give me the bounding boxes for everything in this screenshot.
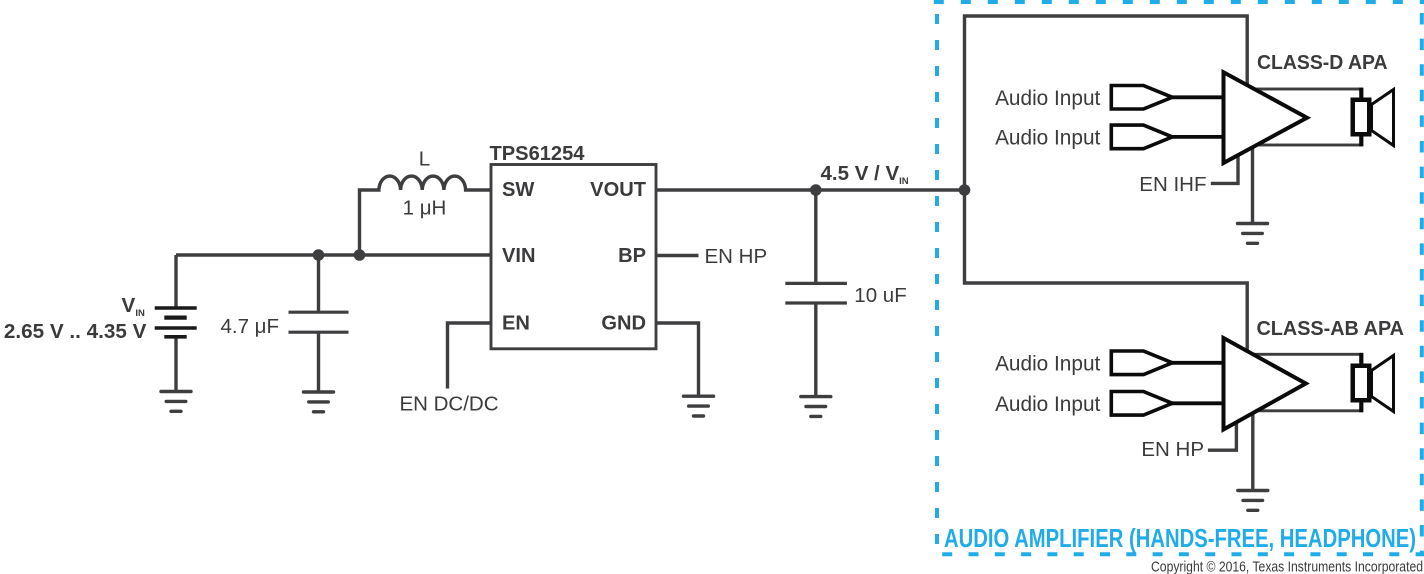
svg-text:Audio Input: Audio Input <box>995 393 1100 416</box>
svg-text:10 uF: 10 uF <box>854 284 906 307</box>
svg-text:SW: SW <box>502 179 534 201</box>
svg-text:EN HP: EN HP <box>705 245 768 268</box>
svg-text:4.7 μF: 4.7 μF <box>220 315 279 338</box>
svg-text:EN IHF: EN IHF <box>1139 173 1206 196</box>
svg-text:1 μH: 1 μH <box>403 196 447 219</box>
svg-text:CLASS-D APA: CLASS-D APA <box>1257 52 1388 74</box>
svg-text:Audio Input: Audio Input <box>995 126 1100 149</box>
svg-text:VOUT: VOUT <box>590 179 647 201</box>
svg-text:AUDIO AMPLIFIER (HANDS-FREE, H: AUDIO AMPLIFIER (HANDS-FREE, HEADPHONE) <box>944 523 1416 553</box>
svg-text:Audio Input: Audio Input <box>995 352 1100 375</box>
svg-text:2.65 V .. 4.35 V: 2.65 V .. 4.35 V <box>4 320 147 343</box>
svg-text:CLASS-AB APA: CLASS-AB APA <box>1257 318 1405 340</box>
svg-text:EN DC/DC: EN DC/DC <box>399 393 498 416</box>
svg-text:EN: EN <box>502 313 530 335</box>
svg-text:GND: GND <box>601 313 646 335</box>
svg-text:TPS61254: TPS61254 <box>490 143 586 165</box>
svg-text:Audio Input: Audio Input <box>995 87 1100 110</box>
svg-text:VIN: VIN <box>502 245 536 267</box>
svg-text:4.5 V / VIN: 4.5 V / VIN <box>821 162 909 187</box>
svg-text:Copyright © 2016, Texas Instru: Copyright © 2016, Texas Instruments Inco… <box>1151 559 1423 574</box>
svg-text:BP: BP <box>618 245 646 267</box>
svg-text:EN HP: EN HP <box>1141 438 1204 461</box>
svg-text:L: L <box>419 148 430 171</box>
